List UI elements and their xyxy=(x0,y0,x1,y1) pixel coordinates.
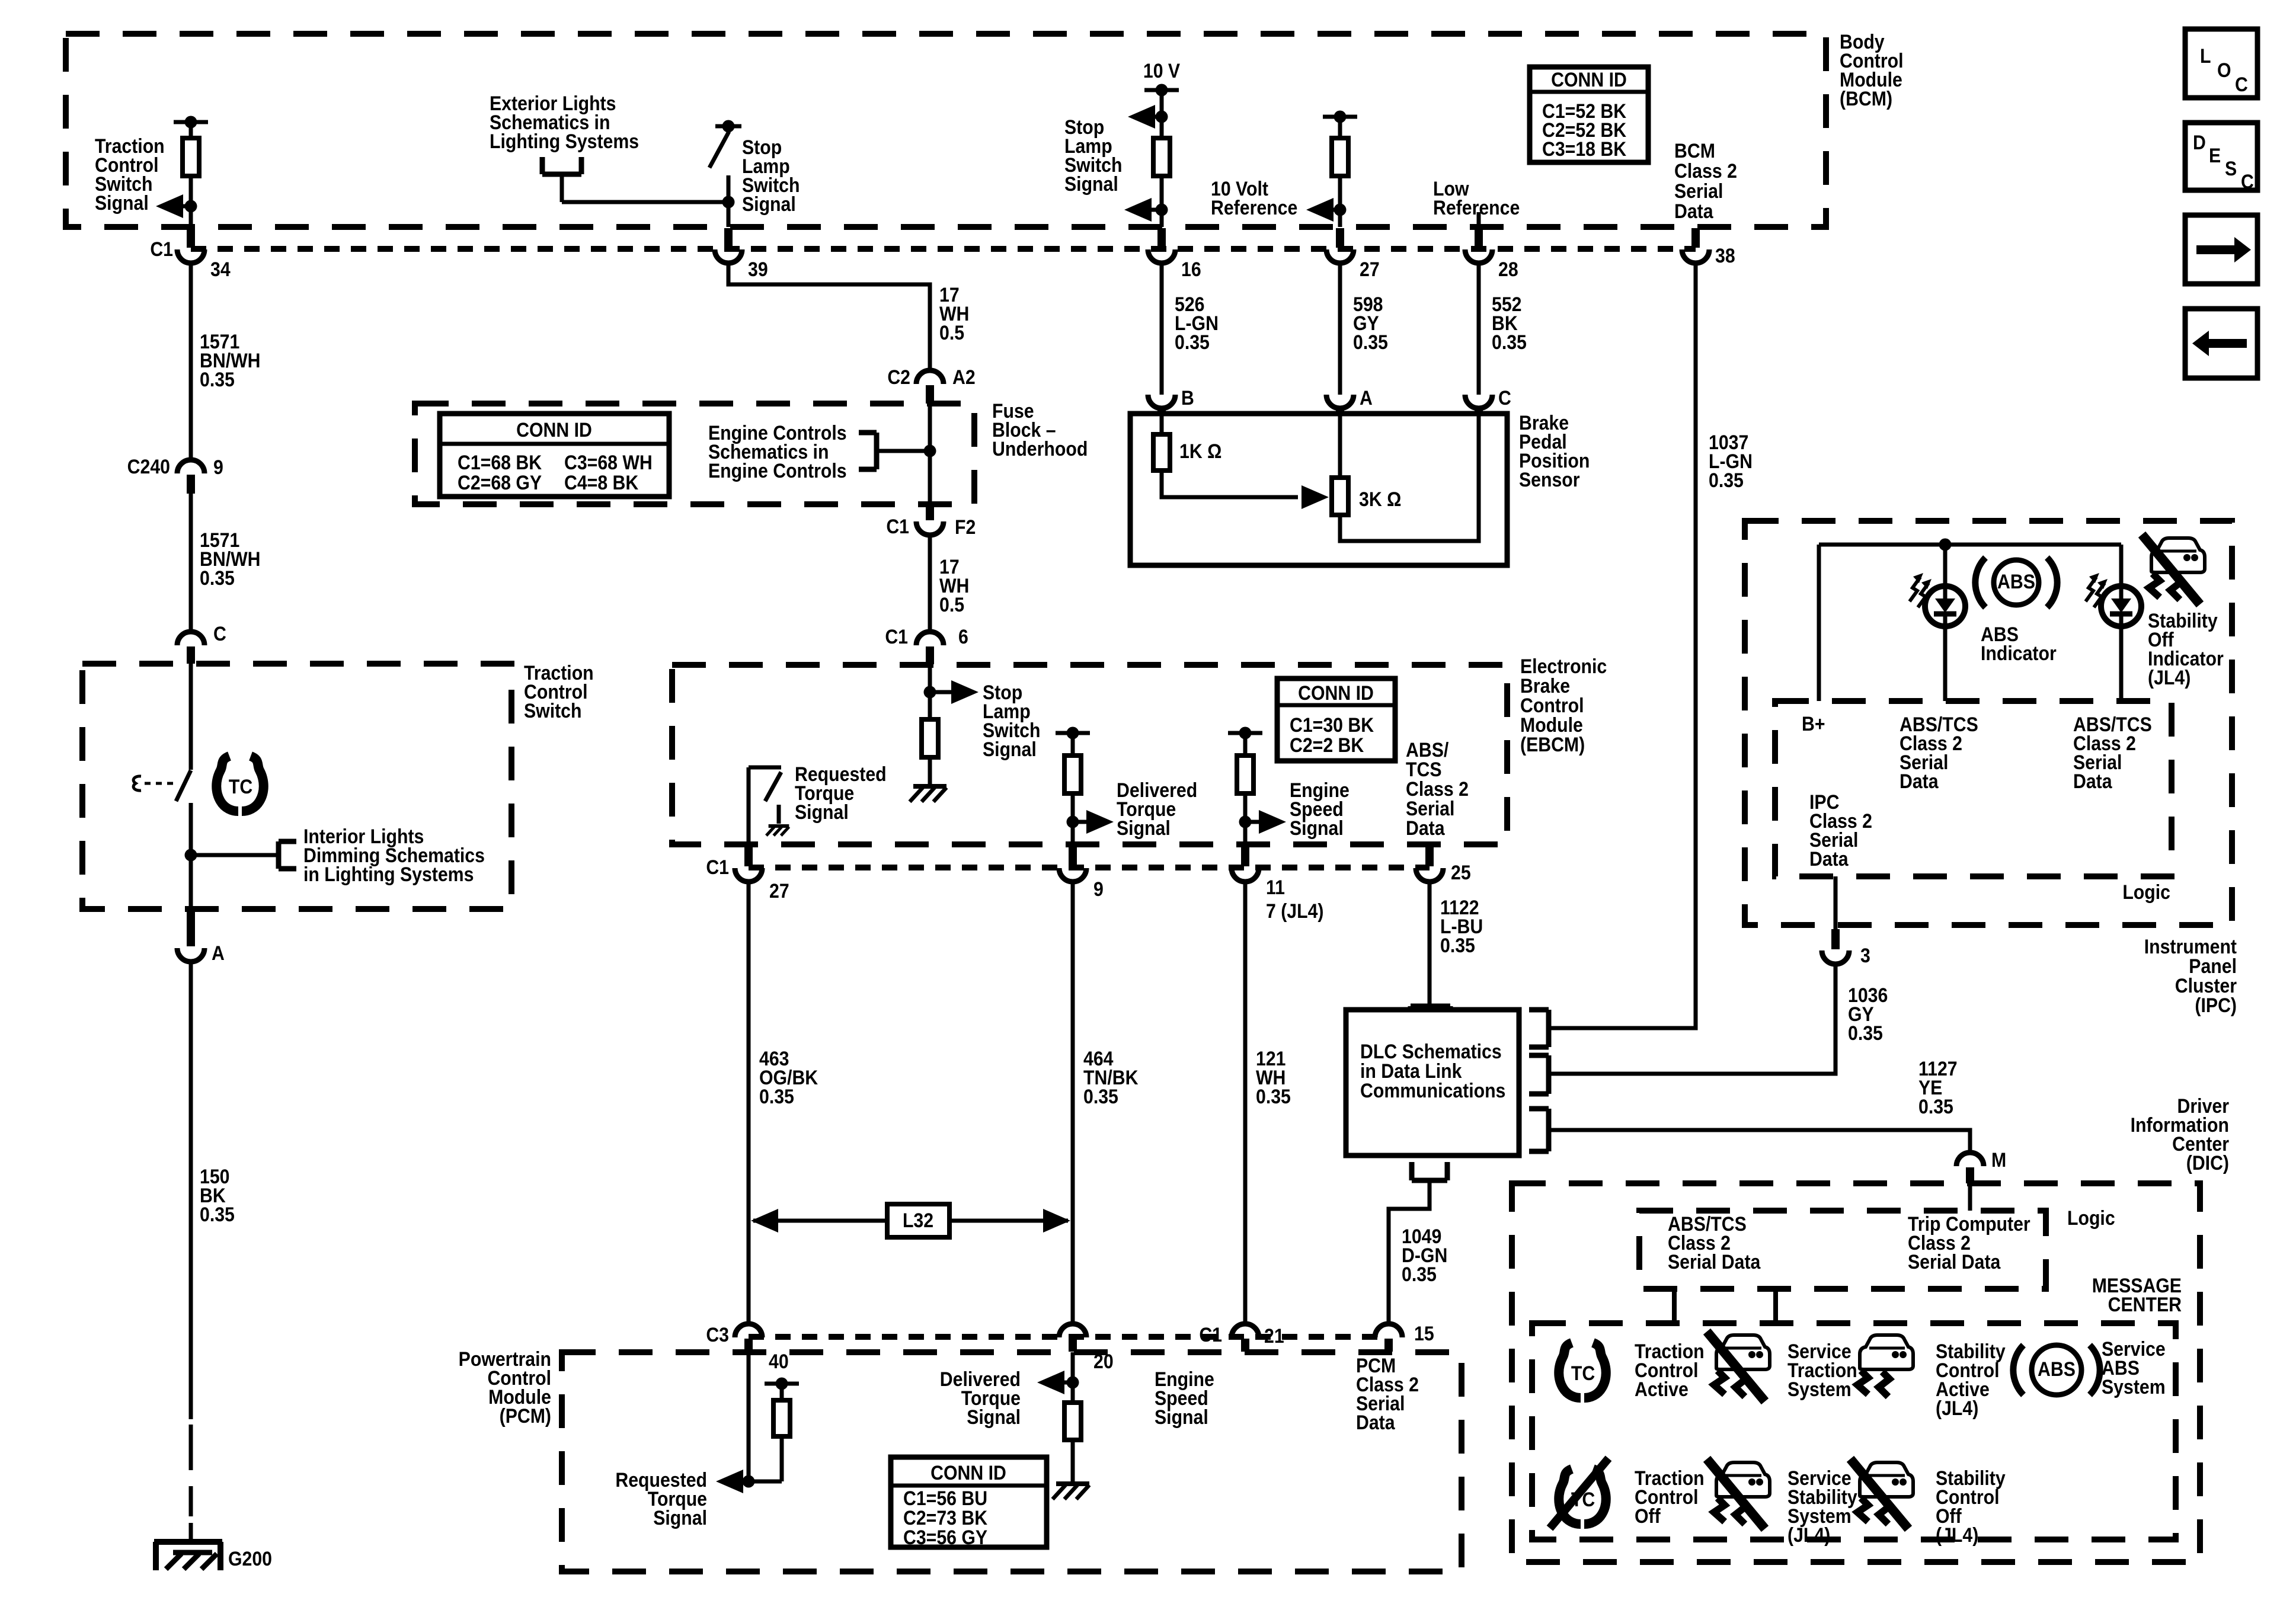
wire xyxy=(1160,90,1164,138)
wire M to logic xyxy=(1968,1183,1972,1211)
icon TC (traction control switch) xyxy=(216,756,238,811)
connector BCM pin 38 xyxy=(1682,228,1709,263)
module box: Body Control Module (BCM) xyxy=(66,34,1826,227)
wire B+ lead xyxy=(1817,545,1821,701)
svg-text:C: C xyxy=(2235,73,2248,95)
svg-text:Reference: Reference xyxy=(1211,196,1297,219)
connector BCM pin 16 xyxy=(1148,228,1175,263)
svg-text:C3=68 WH: C3=68 WH xyxy=(564,451,653,473)
inner logic box (DIC) xyxy=(1639,1211,2046,1289)
plug connector into DLC box (top) xyxy=(1411,1006,1450,1020)
node junction dot xyxy=(1334,204,1347,216)
button LOC xyxy=(2185,29,2257,98)
resistor (BCM traction control pull-up) xyxy=(183,138,199,176)
resistor (EBCM stop lamp) xyxy=(922,719,938,757)
arrow: Engine Speed Signal xyxy=(1259,810,1286,834)
svg-text:M: M xyxy=(1991,1148,2006,1171)
wire low reference xyxy=(1477,212,1481,227)
svg-text:0.35: 0.35 xyxy=(1440,934,1475,956)
wire requested torque (PCM) xyxy=(747,1352,751,1481)
box: Brake Pedal Position Sensor xyxy=(1130,414,1507,565)
connector BPPS pin B xyxy=(1148,395,1175,415)
inner logic box (IPC) xyxy=(1775,701,2172,876)
icon ABS (parenthesis circle) xyxy=(1994,560,2039,605)
plug connector under DLC box (bottom) xyxy=(1412,1162,1447,1180)
wire 121 WH xyxy=(1243,882,1248,1324)
resistor (10 volt reference) xyxy=(1332,138,1348,176)
arrow: Requested Torque Signal (PCM) xyxy=(716,1470,743,1493)
svg-text:Switch: Switch xyxy=(524,699,581,722)
wire indicator bus xyxy=(1819,543,2121,547)
svg-text:C240: C240 xyxy=(127,455,170,478)
bracket to engine controls schematic xyxy=(859,433,930,469)
svg-text:C1: C1 xyxy=(885,625,908,648)
svg-text:C1=30 BK: C1=30 BK xyxy=(1290,713,1374,736)
svg-text:Signal: Signal xyxy=(1290,817,1344,839)
svg-text:3K Ω: 3K Ω xyxy=(1359,488,1401,510)
resistor (requested torque PCM) xyxy=(773,1400,790,1436)
wire 1122 L-BU xyxy=(1428,882,1432,1006)
svg-text:G200: G200 xyxy=(228,1547,272,1570)
wire below switch xyxy=(189,803,193,855)
svg-text:C2=68 GY: C2=68 GY xyxy=(458,471,542,494)
resistor 3K xyxy=(1332,478,1348,515)
ground (PCM internal) xyxy=(1056,1481,1089,1486)
node: 10 volt reference bar xyxy=(1323,115,1357,119)
wire xyxy=(1338,117,1342,138)
svg-text:C1: C1 xyxy=(1199,1323,1222,1346)
svg-text:Underhood: Underhood xyxy=(992,437,1088,460)
wire stability LED leads xyxy=(2119,545,2124,586)
icon traction control active (TC) xyxy=(1559,1343,1581,1398)
wire 1036 GY from IPC pin 3 to DLC xyxy=(1549,966,1835,1074)
node junction dot xyxy=(1156,111,1168,123)
svg-text:0.35: 0.35 xyxy=(200,1203,235,1225)
CONN ID table (BCM): C1=52 BK C2=52 BK C3=18 BK xyxy=(1530,67,1648,162)
svg-text:9: 9 xyxy=(1093,878,1104,900)
connector BCM pin 28 xyxy=(1465,228,1492,263)
connector IPC pin 3 xyxy=(1822,929,1849,964)
svg-text:Signal: Signal xyxy=(742,193,796,215)
svg-text:10 V: 10 V xyxy=(1143,59,1181,82)
svg-text:C: C xyxy=(2241,170,2254,193)
svg-text:System: System xyxy=(2102,1375,2166,1398)
svg-text:(JL4): (JL4) xyxy=(1936,1523,1978,1546)
svg-text:1K Ω: 1K Ω xyxy=(1179,440,1221,462)
connector EBCM C1 pin 6 xyxy=(916,632,944,664)
wire to ground xyxy=(1071,1440,1075,1481)
svg-text:0.35: 0.35 xyxy=(1848,1022,1883,1044)
wire 1571 BN/WH segment 2 xyxy=(189,494,193,632)
connector fuse block C2 pin A2 xyxy=(916,370,944,404)
arrow: Traction Control Switch Signal xyxy=(156,194,183,218)
svg-text:S: S xyxy=(2225,157,2237,180)
svg-text:BCM: BCM xyxy=(1674,139,1715,162)
svg-text:39: 39 xyxy=(748,258,768,280)
node junction dot xyxy=(924,686,936,699)
node junction dot xyxy=(1939,539,1952,551)
svg-text:Active: Active xyxy=(1635,1378,1689,1400)
svg-text:L32: L32 xyxy=(903,1209,933,1231)
svg-text:C1=68 BK: C1=68 BK xyxy=(458,451,542,473)
wire delivered torque (PCM) xyxy=(1071,1352,1075,1403)
svg-text:D: D xyxy=(2193,131,2206,153)
connector pin C (traction control switch) xyxy=(177,632,204,664)
wire inside fuse block xyxy=(928,404,932,504)
svg-text:Signal: Signal xyxy=(983,738,1037,760)
node: branch top bar xyxy=(765,1382,799,1386)
svg-text:Lighting Systems: Lighting Systems xyxy=(490,130,639,152)
svg-text:ABS: ABS xyxy=(1997,570,2035,593)
switch blade (stop lamp switch) xyxy=(709,132,729,168)
switch blade (traction control) xyxy=(176,770,191,801)
switch: requested torque (EBCM) xyxy=(749,767,781,824)
svg-text:CONN ID: CONN ID xyxy=(1298,681,1374,704)
wire 598 GY xyxy=(1338,263,1342,395)
svg-text:B+: B+ xyxy=(1802,712,1825,735)
edge connector bracket 1 (DLC right) xyxy=(1529,1010,1549,1047)
wire stop lamp switch signal inside EBCM xyxy=(928,665,932,719)
module box: Instrument Panel Cluster (IPC) xyxy=(1745,521,2232,925)
svg-text:Data: Data xyxy=(1406,817,1446,839)
arrow: Stop Lamp Switch Signal (EBCM) xyxy=(951,680,978,704)
svg-text:Reference: Reference xyxy=(1433,196,1520,219)
connector BPPS pin A xyxy=(1326,395,1354,415)
svg-text:(JL4): (JL4) xyxy=(1936,1397,1978,1419)
svg-text:0.35: 0.35 xyxy=(1083,1085,1118,1108)
svg-text:(BCM): (BCM) xyxy=(1840,87,1892,110)
connector fuse block C1 pin F2 xyxy=(916,504,944,535)
svg-text:0.35: 0.35 xyxy=(1918,1095,1953,1118)
node junction dot with arrow xyxy=(185,200,197,213)
module box: Traction Control Switch xyxy=(82,664,511,909)
wire inside BPPS (A leg) xyxy=(1338,414,1342,478)
svg-text:A: A xyxy=(1360,386,1373,409)
node junction dot (engine controls tap) xyxy=(924,445,936,457)
ground G200 xyxy=(154,1542,222,1570)
svg-text:0.35: 0.35 xyxy=(1709,469,1744,491)
LED: stability off indicator xyxy=(2101,586,2141,626)
connector row line (PCM) xyxy=(749,1334,1389,1340)
arrow: stop lamp switch signal (upper) xyxy=(1128,105,1155,129)
svg-text:Serial Data: Serial Data xyxy=(1908,1250,2001,1273)
wire to stop lamp switch xyxy=(562,200,728,204)
wire 526 L-GN xyxy=(1160,263,1164,395)
svg-text:CENTER: CENTER xyxy=(2108,1293,2182,1315)
svg-text:(IPC): (IPC) xyxy=(2195,994,2237,1016)
wire 463 OG/BK xyxy=(747,882,751,1324)
edge connector bracket 3 (DLC right) xyxy=(1529,1109,1549,1151)
connector C240 pin 9 xyxy=(177,460,204,494)
connector PCM pin 21 xyxy=(1232,1324,1259,1352)
box: DLC Schematics in Data Link Communications xyxy=(1346,1010,1519,1156)
svg-text:C1: C1 xyxy=(150,238,173,260)
CONN ID table (PCM) xyxy=(891,1457,1047,1548)
wire xyxy=(1071,793,1075,844)
arrow: Delivered Torque Signal (PCM) xyxy=(1037,1371,1064,1394)
button DESC xyxy=(2185,123,2257,193)
wire 1049 D-GN xyxy=(1389,1180,1430,1324)
svg-text:in Lighting Systems: in Lighting Systems xyxy=(303,863,474,885)
CONN ID table (Fuse Block) xyxy=(440,414,669,497)
svg-text:Sensor: Sensor xyxy=(1519,468,1580,491)
svg-text:(DIC): (DIC) xyxy=(2186,1151,2229,1174)
svg-text:0.35: 0.35 xyxy=(759,1085,794,1108)
connector BPPS pin C xyxy=(1465,395,1492,415)
button next (right arrow) xyxy=(2185,215,2257,284)
wire to pin A xyxy=(189,855,193,909)
module box: Fuse Block - Underhood xyxy=(415,404,974,504)
connector pin A xyxy=(177,909,204,962)
svg-text:21: 21 xyxy=(1264,1324,1284,1347)
svg-text:B: B xyxy=(1181,386,1194,409)
wire wiper xyxy=(1162,470,1298,497)
connector EBCM pin 27 xyxy=(735,846,762,882)
connector EBCM pin 11 xyxy=(1232,846,1259,882)
svg-text:System: System xyxy=(1787,1378,1851,1400)
icon service ABS xyxy=(2032,1345,2081,1395)
svg-text:Class 2: Class 2 xyxy=(1674,159,1737,182)
svg-text:C2: C2 xyxy=(887,366,910,388)
svg-text:Data: Data xyxy=(1809,847,1849,870)
svg-text:0.35: 0.35 xyxy=(200,566,235,589)
node: traction control switch signal junction bar xyxy=(174,120,208,124)
svg-text:0.35: 0.35 xyxy=(200,368,235,391)
arrow: stop lamp switch signal (lower) xyxy=(1124,198,1152,222)
wire 1037 L-GN from BCM pin 38 to DLC xyxy=(1549,263,1696,1028)
icon stability control off (car crossed) xyxy=(1860,1462,1913,1497)
bracket to exterior lights schematic xyxy=(542,157,581,202)
module box: Electronic Brake Control Module (EBCM) xyxy=(672,665,1507,844)
svg-text:28: 28 xyxy=(1498,258,1518,280)
svg-text:0.35: 0.35 xyxy=(1256,1085,1291,1108)
svg-text:3: 3 xyxy=(1860,944,1870,966)
node junction dot xyxy=(1239,816,1252,828)
wire xyxy=(727,175,731,227)
svg-text:7 (JL4): 7 (JL4) xyxy=(1266,900,1324,922)
arrow: Delivered Torque Signal xyxy=(1086,810,1114,834)
wire 17 WH jog from pin 39 xyxy=(728,263,930,370)
icon stability control active (car) xyxy=(1860,1335,1913,1369)
svg-text:Serial: Serial xyxy=(1674,180,1723,202)
arrow: wiper into 3K xyxy=(1302,485,1329,509)
wire xyxy=(1243,733,1248,756)
resistor 1K xyxy=(1153,434,1170,470)
resistor (delivered torque PCM) xyxy=(1064,1403,1081,1440)
LED: ABS indicator xyxy=(1925,586,1965,626)
svg-text:Communications: Communications xyxy=(1360,1079,1505,1102)
wire 1571 BN/WH segment 1 xyxy=(189,263,193,460)
wire xyxy=(1071,733,1075,756)
wire 150 BK dashed continuation xyxy=(189,1425,193,1470)
node: engine speed bar xyxy=(1228,731,1262,735)
svg-text:Signal: Signal xyxy=(653,1506,707,1529)
svg-text:27: 27 xyxy=(769,879,789,902)
svg-text:Logic: Logic xyxy=(2067,1206,2115,1229)
svg-text:TC: TC xyxy=(229,775,252,798)
resistor (engine speed) xyxy=(1237,756,1253,793)
svg-text:Indicator: Indicator xyxy=(1981,642,2057,664)
svg-text:0.35: 0.35 xyxy=(1492,331,1527,353)
edge connector bracket 2 (DLC right) xyxy=(1529,1055,1549,1094)
connector PCM pin 20 xyxy=(1059,1324,1086,1352)
svg-text:C1: C1 xyxy=(706,856,729,878)
wire xyxy=(1243,793,1248,844)
wire 1127 YE from DLC to DIC pin M xyxy=(1549,1130,1970,1153)
icon traction control off (TC crossed) xyxy=(1559,1469,1581,1524)
svg-text:Signal: Signal xyxy=(967,1406,1021,1428)
wire logic to message center (left) xyxy=(1672,1289,1677,1323)
svg-text:40: 40 xyxy=(769,1350,789,1372)
button back (left arrow) xyxy=(2185,309,2257,378)
svg-text:C4=8 BK: C4=8 BK xyxy=(564,471,638,494)
svg-text:0.5: 0.5 xyxy=(939,593,964,616)
svg-text:Signal: Signal xyxy=(95,191,149,214)
module box: Driver Information Center (DIC) xyxy=(1512,1183,2200,1562)
svg-text:16: 16 xyxy=(1181,258,1201,280)
connector PCM pin 40 xyxy=(735,1324,762,1352)
svg-text:A2: A2 xyxy=(952,366,976,388)
svg-text:Signal: Signal xyxy=(795,801,849,823)
wire requested torque xyxy=(747,767,751,844)
svg-text:ABS: ABS xyxy=(2038,1358,2076,1380)
wire to interior lights bracket xyxy=(191,853,279,857)
node junction dot xyxy=(1067,816,1079,828)
icon service stability (car crossed) xyxy=(1716,1462,1770,1497)
svg-text:11: 11 xyxy=(1266,876,1285,898)
connector row line (EBCM C1) xyxy=(749,865,1430,870)
svg-text:L: L xyxy=(2200,44,2211,67)
svg-text:0.5: 0.5 xyxy=(939,321,964,344)
resistor (stop lamp pull-up) xyxy=(1153,138,1170,176)
svg-text:Signal: Signal xyxy=(1117,817,1171,839)
ground (EBCM internal) xyxy=(913,784,946,789)
svg-text:Data: Data xyxy=(1356,1411,1396,1433)
icon stability off (car with slash) xyxy=(2151,538,2205,572)
svg-text:Signal: Signal xyxy=(1155,1406,1208,1428)
svg-text:Data: Data xyxy=(2073,770,2113,792)
svg-text:20: 20 xyxy=(1093,1350,1114,1372)
connector BCM pin 27 xyxy=(1326,228,1354,263)
node junction dot xyxy=(1067,1377,1079,1389)
svg-text:34: 34 xyxy=(210,258,231,280)
svg-text:CONN ID: CONN ID xyxy=(516,418,592,441)
svg-text:(EBCM): (EBCM) xyxy=(1520,733,1585,756)
connector BCM C1 pin 34 xyxy=(177,228,204,263)
wire inside BPPS (B leg) xyxy=(1160,414,1164,434)
svg-text:C3=56 GY: C3=56 GY xyxy=(903,1526,987,1548)
node junction dot xyxy=(1156,204,1168,216)
node junction dot xyxy=(722,196,735,209)
svg-text:0.35: 0.35 xyxy=(1175,331,1210,353)
svg-text:A: A xyxy=(212,942,225,964)
svg-text:27: 27 xyxy=(1360,258,1380,280)
svg-text:CONN ID: CONN ID xyxy=(930,1461,1006,1484)
wire 3K to C leg xyxy=(1340,414,1479,541)
connector PCM pin 15 xyxy=(1375,1324,1402,1352)
svg-text:Data: Data xyxy=(1674,200,1714,222)
wire ABS LED leads xyxy=(1943,545,1948,586)
svg-text:C: C xyxy=(1498,386,1511,409)
arrow: 10 Volt Reference xyxy=(1306,198,1334,222)
message center box xyxy=(1532,1323,2176,1539)
svg-text:(JL4): (JL4) xyxy=(2148,666,2191,689)
svg-text:9: 9 xyxy=(213,456,223,478)
svg-text:0.35: 0.35 xyxy=(1353,331,1388,353)
icon service traction (car crossed) xyxy=(1716,1335,1770,1369)
connector DIC pin M xyxy=(1956,1153,1984,1183)
wire IPC class 2 serial data xyxy=(1834,876,1838,929)
svg-text:O: O xyxy=(2217,59,2231,81)
svg-text:25: 25 xyxy=(1451,861,1471,884)
wire into switch xyxy=(189,664,193,770)
svg-text:TC: TC xyxy=(1571,1362,1595,1384)
svg-text:Engine Controls: Engine Controls xyxy=(708,459,847,482)
CONN ID table (EBCM): C1=30 BK C2=2 BK xyxy=(1277,678,1395,761)
svg-text:38: 38 xyxy=(1715,244,1735,267)
wire xyxy=(189,176,193,227)
ground (requested torque) xyxy=(769,824,789,828)
node: stop lamp switch top bar xyxy=(715,124,741,129)
svg-text:(JL4): (JL4) xyxy=(1787,1523,1830,1546)
node junction dot xyxy=(743,1475,755,1488)
svg-text:Off: Off xyxy=(1635,1505,1661,1527)
detent symbol xyxy=(133,776,141,790)
svg-text:Serial Data: Serial Data xyxy=(1668,1250,1761,1273)
branch with resistor (requested torque) xyxy=(749,1384,782,1481)
svg-text:15: 15 xyxy=(1414,1322,1434,1345)
wire 464 TN/BK xyxy=(1071,882,1075,1324)
connector EBCM pin 9 xyxy=(1059,846,1086,882)
bracket to interior lights schematic xyxy=(279,841,296,869)
svg-text:Data: Data xyxy=(1900,770,1939,792)
svg-text:Signal: Signal xyxy=(1064,172,1118,195)
node junction dot (interior lights tap) xyxy=(185,849,197,862)
harness span arrow L32 xyxy=(751,1204,1070,1237)
svg-text:C3=18 BK: C3=18 BK xyxy=(1542,137,1626,160)
svg-text:C3: C3 xyxy=(706,1323,729,1346)
wire logic to message center (right) xyxy=(1773,1289,1778,1323)
wire xyxy=(189,122,193,138)
svg-text:0.35: 0.35 xyxy=(1402,1263,1437,1285)
resistor (delivered torque) xyxy=(1064,756,1081,793)
svg-text:(PCM): (PCM) xyxy=(500,1404,551,1427)
wire to ground xyxy=(928,757,932,784)
svg-text:C2=2 BK: C2=2 BK xyxy=(1290,734,1364,756)
node: 10V supply bar xyxy=(1144,88,1179,92)
svg-text:Logic: Logic xyxy=(2122,881,2170,903)
mechanical link dashes xyxy=(145,782,177,785)
svg-text:F2: F2 xyxy=(955,516,976,538)
svg-text:C1: C1 xyxy=(886,515,909,537)
node: delivered torque bar xyxy=(1056,731,1090,735)
svg-text:CONN ID: CONN ID xyxy=(1551,68,1627,91)
connector row line (BCM C1) xyxy=(191,246,1696,252)
module box: Powertrain Control Module (PCM) xyxy=(562,1352,1462,1571)
wire xyxy=(1160,176,1164,227)
connector BCM pin 39 xyxy=(715,228,742,263)
wire 552 BK xyxy=(1477,263,1481,395)
svg-text:6: 6 xyxy=(958,625,968,648)
svg-text:C: C xyxy=(213,622,226,645)
svg-text:E: E xyxy=(2209,144,2221,167)
wire 150 BK xyxy=(189,962,193,1419)
connector EBCM pin 25 xyxy=(1416,846,1443,882)
wire 17 WH segment 2 xyxy=(928,535,932,632)
wire xyxy=(1338,176,1342,227)
